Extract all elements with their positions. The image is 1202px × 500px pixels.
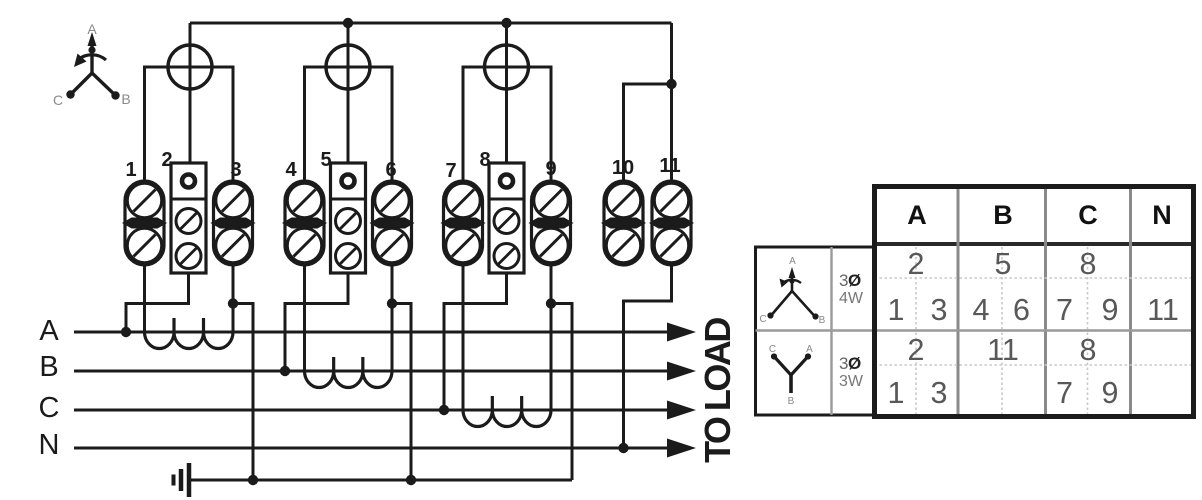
svg-text:3W: 3W [839,373,864,390]
label phase C [39,392,60,424]
table 3W terminal 7 [1056,376,1073,410]
table header B [993,200,1013,230]
table 3W terminal 1 [888,376,905,410]
table 3W terminal 3 [931,376,948,410]
svg-text:11: 11 [987,333,1019,367]
svg-text:C: C [1078,200,1098,230]
label icon4W C [759,314,766,325]
label terminal number 9 [545,158,556,180]
table dotted half divider [1087,247,1089,417]
wire branch to terminal 10 [624,84,672,181]
table dotted row separator 3W [875,364,1194,366]
table dotted half divider [1001,247,1003,417]
label 3-phase 4-wire [839,271,864,307]
wire top voltage bus [190,22,672,25]
svg-text:7: 7 [1056,293,1073,327]
wire bus drop through voltage coil V2 to terminal 5 [347,23,350,163]
wire terminal 11 drop to line N [624,265,672,448]
node ground bus junction A [248,475,258,485]
label icon3W A [806,344,813,355]
svg-text:C: C [759,314,766,325]
table 3W common terminal 8 [1080,333,1097,367]
svg-text:4W: 4W [839,290,864,307]
terminal 8 (voltage terminal) [489,163,524,273]
wire phase line A [74,331,669,334]
arrow to load line N [667,439,696,458]
wire bus drop through voltage coil V1 to terminal 2 [189,23,192,163]
label terminal number 2 [161,149,172,171]
table 4W common terminal 8 [1080,247,1097,281]
label terminal number 6 [385,159,396,181]
node junction to terminal 10 branch [666,79,676,89]
svg-text:C: C [53,92,63,108]
svg-text:2: 2 [908,247,925,281]
node junction terminal 3 / ground branch [228,298,238,308]
wire bus right drop to terminal 11 [670,23,673,181]
wire terminal 4 drop to line B (current coil left end) [303,265,306,371]
label phase N [39,429,60,461]
svg-text:10: 10 [612,157,634,179]
svg-text:C: C [39,392,60,424]
wire ground bus [189,479,572,482]
wire bus drop through voltage coil V3 to terminal 8 [505,23,508,163]
svg-text:3: 3 [931,376,948,410]
label phase A [39,315,59,347]
svg-text:9: 9 [545,158,556,180]
wire ground branch C [551,304,572,481]
label terminal number 4 [285,159,297,181]
node ground bus junction B [406,475,416,485]
table header separator [873,242,1196,246]
svg-text:B: B [121,91,130,107]
svg-text:11: 11 [1147,293,1179,327]
wire ground branch A [233,304,253,481]
node tap junction on line B [280,366,290,376]
svg-text:4: 4 [285,159,297,181]
terminal 5 (voltage terminal) [331,163,366,273]
label phasor C [53,92,63,108]
table 4W common terminal 2 [908,247,925,281]
svg-text:11: 11 [659,155,680,177]
wire ground branch B [392,304,411,481]
ground symbol [174,463,190,497]
wire terminal 9 drop / current coil C right end [550,265,553,410]
svg-text:A: A [87,21,97,37]
label icon4W B [819,315,826,326]
arrow to load line A [667,323,696,342]
table dotted half divider [915,247,917,417]
label terminal number 3 [230,159,241,181]
phasor icon 3-phase 3-wire [771,353,811,393]
svg-text:B: B [39,351,58,383]
table column divider B-C [1044,187,1047,417]
svg-text:6: 6 [1013,293,1030,327]
table dotted row separator 4W [875,277,1194,279]
svg-text:A: A [39,315,59,347]
table left extension border [756,247,875,415]
label phasor B [121,91,130,107]
svg-text:4: 4 [973,293,990,327]
svg-text:A: A [907,200,927,230]
table 4W terminal 6 [1013,293,1030,327]
label terminal number 8 [479,149,490,171]
table header N [1152,200,1172,230]
current coil L1 on line A [145,318,234,349]
svg-text:7: 7 [445,160,456,182]
terminal 11 (current terminal) [649,181,694,265]
svg-text:9: 9 [1102,293,1119,327]
wire phase line N [74,447,669,450]
node tap junction on line C [439,405,449,415]
arrow to load line C [667,401,696,420]
svg-text:N: N [39,429,60,461]
svg-text:5: 5 [320,149,331,171]
svg-text:2: 2 [908,333,925,367]
svg-text:3: 3 [230,159,241,181]
label terminal number 10 [612,157,634,179]
label phase B [39,351,58,383]
wire terminal 6 drop / current coil B right end [391,265,394,371]
table column divider C-N [1129,187,1132,417]
wire phase line B [74,370,669,373]
terminal 7 (current terminal) [441,181,486,265]
terminal 3 (current terminal) [211,181,256,265]
label icon3W C [769,344,776,355]
svg-text:9: 9 [1102,376,1119,410]
table 4W terminal 9 [1102,293,1119,327]
table column divider A-B [957,187,960,417]
node junction terminal 9 / ground branch [546,298,556,308]
wire terminal 8 voltage tap to line C [444,273,507,410]
table header A [907,200,927,230]
terminal 9 (current terminal) [529,181,574,265]
table 4W terminal 4 [973,293,990,327]
svg-text:1: 1 [888,293,905,327]
voltage coil V3 [485,45,529,89]
terminal 6 (current terminal) [370,181,415,265]
phasor diagram rotation [66,32,119,100]
phasor icon 3-phase 4-wire [767,267,818,320]
current coil L3 on line C [463,396,551,427]
terminal 4 (current terminal) [282,181,327,265]
node tap junction on line A [121,327,131,337]
table header C [1078,200,1098,230]
voltage coil V2 [326,45,370,89]
svg-text:B: B [788,396,795,407]
wire terminal 7 drop to line C (current coil left end) [462,265,465,410]
svg-text:B: B [993,200,1013,230]
svg-text:5: 5 [995,247,1012,281]
svg-text:3: 3 [931,293,948,327]
wire terminal 1 drop to line A (current coil left end) [143,265,146,332]
terminal 1 (current terminal) [122,181,167,265]
label terminal number 1 [125,159,136,181]
svg-text:8: 8 [479,149,490,171]
arrow to load line B [667,362,696,381]
wire terminal 2 voltage tap to line A [126,273,189,332]
svg-text:7: 7 [1056,376,1073,410]
wire voltage tap group B (terminals 4-6) [305,67,393,181]
table 3W common terminal 11 [987,333,1019,367]
svg-text:6: 6 [385,159,396,181]
label terminal number 7 [445,160,456,182]
svg-text:A: A [806,344,813,355]
table 4W terminal 11 [1147,293,1179,327]
wire terminal 3 drop / current coil A right end [232,265,235,332]
voltage coil V1 [168,45,212,89]
table 3W terminal 9 [1102,376,1119,410]
label icon3W B [788,396,795,407]
label phasor A [87,21,97,37]
node junction on line N [618,443,628,453]
terminal 2 (voltage terminal) [171,163,206,273]
svg-text:N: N [1152,200,1172,230]
current coil L2 on line B [305,357,393,388]
svg-text:2: 2 [161,149,172,171]
svg-text:A: A [789,256,796,267]
label terminal number 5 [320,149,331,171]
wire terminal 5 voltage tap to line B [285,273,348,371]
label 3-phase 3-wire [839,354,864,390]
svg-text:C: C [769,344,776,355]
table 4W terminal 3 [931,293,948,327]
label TO LOAD [697,318,738,463]
node bus junction above voltage coil V3 [501,18,511,28]
node bus junction above voltage coil V2 [343,18,353,28]
table left extension row divider [756,329,875,331]
svg-text:Ø: Ø [848,354,861,373]
table 4W terminal 1 [888,293,905,327]
table 3W common terminal 2 [908,333,925,367]
svg-text:B: B [819,315,826,326]
label terminal number 11 [659,155,680,177]
node junction terminal 6 / ground branch [387,298,397,308]
table 4W common terminal 5 [995,247,1012,281]
table group separator [875,329,1194,331]
wire voltage tap group A (terminals 1-3) [145,67,234,181]
table 4W terminal 7 [1056,293,1073,327]
svg-text:1: 1 [888,376,905,410]
svg-text:1: 1 [125,159,136,181]
wire phase line C [74,409,669,412]
wire voltage tap group C (terminals 7-9) [463,67,551,181]
svg-text:Ø: Ø [848,271,861,290]
terminal 10 (current terminal) [601,181,646,265]
table left extension divider [830,247,832,415]
svg-text:8: 8 [1080,247,1097,281]
table outer border [875,187,1194,417]
svg-text:TO LOAD: TO LOAD [697,318,738,463]
svg-text:8: 8 [1080,333,1097,367]
label icon4W A [789,256,796,267]
